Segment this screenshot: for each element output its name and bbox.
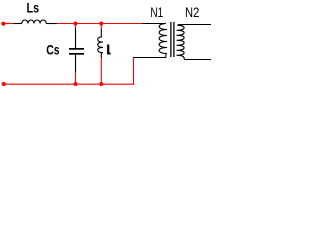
svg-text:Cs: Cs	[46, 42, 60, 58]
svg-text:N1: N1	[150, 4, 163, 20]
svg-text:Ls: Ls	[27, 0, 40, 16]
svg-text:N2: N2	[185, 4, 199, 20]
